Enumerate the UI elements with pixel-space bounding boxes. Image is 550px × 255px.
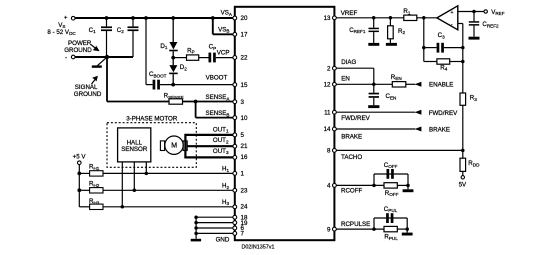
svg-text:13: 13: [324, 15, 331, 22]
svg-text:1: 1: [241, 171, 245, 178]
svg-text:D02IN1357v1: D02IN1357v1: [242, 244, 275, 250]
hall sensor box: [118, 128, 151, 162]
arrow ENABLE: [415, 82, 454, 89]
signal ground symbol: [92, 57, 107, 66]
wire DIAG: [336, 68, 374, 84]
arrow FWD/REV: [415, 110, 459, 117]
diode D1: [160, 42, 177, 58]
node +5V/H2: [77, 188, 81, 192]
svg-text:RCPULSE: RCPULSE: [341, 221, 370, 228]
svg-text:BRAKE: BRAKE: [429, 126, 450, 133]
pin 14 circle: [333, 127, 337, 131]
terminal VREF: [484, 9, 505, 16]
node rail/D1: [171, 16, 175, 20]
wire hall to H3: [121, 162, 123, 207]
svg-text:ENABLE: ENABLE: [429, 82, 453, 89]
svg-text:BRAKE: BRAKE: [341, 133, 362, 140]
pin 12 circle: [333, 82, 337, 86]
svg-text:2: 2: [327, 65, 331, 72]
wire TACHO: [336, 149, 463, 151]
label POWER GROUND: [64, 40, 99, 54]
svg-text:M: M: [171, 143, 177, 150]
wire VSB riser: [213, 18, 233, 34]
wire BRAKE: [336, 128, 415, 130]
wire hall to H1: [145, 162, 147, 174]
motor M circle: [165, 136, 183, 154]
node rail/C1: [105, 16, 109, 20]
node hall/H3: [121, 205, 125, 209]
svg-text:15: 15: [241, 82, 248, 89]
pin 13 circle: [333, 16, 337, 20]
wire hall to H2: [133, 162, 135, 190]
node GND 19: [194, 221, 198, 225]
node R2: [389, 16, 393, 20]
motor M left bracket: [160, 141, 164, 151]
node sense split: [194, 100, 198, 104]
capacitor C3: [424, 32, 463, 52]
op-amp U2: [437, 6, 458, 30]
pin 18 circle: [233, 215, 237, 219]
svg-text:EN: EN: [341, 76, 350, 83]
svg-text:VBOOT: VBOOT: [206, 75, 228, 82]
node C3 left: [422, 46, 426, 50]
node hall/H2: [133, 189, 137, 193]
wire power ground row: [75, 56, 133, 58]
node EN/DIAG: [372, 83, 376, 87]
svg-text:11: 11: [324, 109, 331, 116]
node rail/C2: [131, 16, 135, 20]
resistor RDD: [460, 150, 480, 175]
node RCPULSE right: [405, 227, 409, 231]
wire OUT1: [185, 134, 233, 136]
resistor RH3: [79, 198, 233, 210]
wire GND vertical: [195, 217, 197, 239]
svg-text:VREF: VREF: [341, 10, 358, 17]
node feedback: [422, 16, 426, 20]
pin 21 circle: [233, 144, 237, 148]
node TACHO/R3: [461, 149, 465, 153]
wire GND pin 7: [196, 232, 233, 234]
capacitor CREF1: [349, 18, 379, 43]
node GND 18: [194, 215, 198, 219]
node rail/CBOOT: [144, 16, 148, 20]
ground bar CEN: [368, 105, 379, 108]
svg-text:POWER: POWER: [68, 40, 92, 47]
node C3 right: [461, 46, 465, 50]
svg-text:21: 21: [241, 143, 248, 150]
svg-text:12: 12: [324, 82, 331, 89]
wire motor bar: [184, 134, 186, 159]
terminal 5V: [459, 176, 467, 189]
pin 19 circle: [233, 221, 237, 225]
node CREF1: [372, 16, 376, 20]
node RCOFF right: [406, 184, 410, 188]
node power ground star: [105, 55, 109, 59]
node +5V/H1: [77, 172, 81, 176]
IC U1 body: [235, 7, 335, 240]
node RCPULSE left: [372, 227, 376, 231]
wire feedback left vertical: [423, 18, 425, 62]
capacitor COFF: [374, 162, 408, 186]
resistor R1: [403, 8, 437, 20]
pin 8 circle: [333, 149, 337, 153]
wire CBOOT riser: [145, 18, 147, 85]
resistor R3: [460, 93, 477, 150]
wire GND pin 6: [196, 227, 233, 229]
node hall/H1: [145, 172, 149, 176]
capacitor CEN: [369, 84, 397, 105]
wire GND pin 18: [196, 216, 233, 218]
resistor ROFF: [384, 183, 408, 198]
wire SENSEB: [196, 102, 233, 118]
svg-text:23: 23: [241, 188, 248, 195]
wire ground to sense: [107, 57, 169, 102]
node D1/D2: [171, 56, 175, 60]
node CREF2: [472, 10, 476, 14]
pin 1 circle: [233, 172, 237, 176]
pin 16 circle: [233, 156, 237, 160]
svg-text:SENSEB: SENSEB: [205, 110, 229, 117]
node RCOFF left: [372, 184, 376, 188]
wire GND pin 19: [196, 222, 233, 224]
pin 6 circle: [233, 226, 237, 230]
ground bar CREF1: [368, 43, 379, 46]
terminal - power ground: [65, 54, 75, 61]
capacitor C2: [117, 18, 139, 57]
pin 15 circle: [233, 83, 237, 87]
ground bar R2: [386, 43, 397, 46]
svg-text:GROUND: GROUND: [64, 47, 92, 54]
svg-text:FWD/REV: FWD/REV: [429, 110, 458, 117]
svg-text:-: -: [451, 22, 453, 28]
svg-text:-: -: [65, 54, 67, 61]
pin 9 circle: [333, 227, 337, 231]
svg-text:FWD/REV: FWD/REV: [341, 115, 370, 122]
capacitor CP: [199, 44, 233, 63]
svg-text:22: 22: [241, 55, 248, 62]
ground bar RCOFF: [403, 185, 414, 192]
pin 17 circle: [233, 32, 237, 36]
svg-text:VCP: VCP: [217, 50, 230, 57]
svg-text:10: 10: [241, 115, 248, 122]
resistor R2: [388, 18, 406, 43]
resistor REN: [391, 74, 415, 87]
svg-text:5: 5: [241, 132, 245, 139]
svg-text:3-PHASE MOTOR: 3-PHASE MOTOR: [126, 115, 178, 122]
pin 2 circle: [333, 66, 337, 70]
resistor RP: [173, 47, 199, 60]
node GND 6: [194, 226, 198, 230]
resistor RH2: [79, 181, 233, 193]
motor M right bracket: [183, 141, 187, 151]
svg-text:3: 3: [241, 99, 245, 106]
svg-text:GND: GND: [216, 236, 230, 243]
pin 4 circle: [333, 184, 337, 188]
label SIGNAL GROUND: [74, 76, 102, 98]
svg-text:9: 9: [327, 226, 331, 233]
pin 3 circle: [233, 100, 237, 104]
svg-text:+5 V: +5 V: [73, 154, 87, 161]
resistor R4: [424, 59, 463, 72]
node R4 right: [461, 60, 465, 64]
ground bar GND: [191, 239, 201, 242]
svg-text:8: 8: [327, 148, 331, 155]
ground bar CREF2: [469, 37, 480, 40]
wire OUT3: [185, 156, 233, 158]
svg-text:5V: 5V: [459, 182, 467, 189]
capacitor CBOOT: [146, 71, 233, 90]
wire VREF row: [336, 17, 404, 19]
wire op-amp minus feedback: [458, 24, 463, 94]
ground bar RCPULSE: [402, 229, 413, 235]
wire VS top rail: [75, 17, 233, 19]
svg-text:4: 4: [327, 183, 331, 190]
svg-text:DIAG: DIAG: [341, 59, 356, 66]
dashed motor box: [107, 123, 196, 168]
wire OUT2: [187, 145, 233, 147]
wire FWD/REV: [336, 111, 415, 113]
pin 23 circle: [233, 188, 237, 192]
svg-text:TACHO: TACHO: [341, 154, 362, 161]
svg-text:16: 16: [241, 154, 248, 161]
pin 5 circle: [233, 133, 237, 137]
pin 22 circle: [233, 56, 237, 60]
pin 20 circle: [233, 16, 237, 20]
svg-text:GROUND: GROUND: [74, 91, 102, 98]
svg-text:+: +: [64, 15, 68, 22]
pin 7 circle: [233, 232, 237, 236]
capacitor CPUL: [374, 206, 407, 229]
pin 11 circle: [333, 110, 337, 114]
node D2/VBOOT: [171, 83, 175, 87]
wire D1 riser: [172, 18, 174, 42]
svg-text:RCOFF: RCOFF: [341, 187, 363, 194]
node GND 7: [194, 232, 198, 236]
capacitor C1: [89, 18, 112, 57]
arrow BRAKE: [415, 126, 450, 133]
pin 24 circle: [233, 205, 237, 209]
terminal + VS: [47, 15, 76, 37]
svg-text:SENSOR: SENSOR: [121, 146, 148, 153]
wire EN row: [336, 83, 392, 85]
svg-text:17: 17: [241, 32, 248, 39]
terminal +5V: [73, 154, 87, 165]
svg-text:7: 7: [241, 231, 245, 238]
node rail/VSB: [211, 16, 215, 20]
diode D2: [169, 58, 187, 85]
svg-text:14: 14: [324, 126, 331, 133]
resistor RSENSE: [164, 93, 233, 105]
pin 10 circle: [233, 116, 237, 120]
wire RCOFF row: [336, 184, 384, 186]
capacitor CREF2: [469, 12, 499, 37]
svg-text:24: 24: [241, 204, 248, 211]
svg-text:20: 20: [241, 15, 248, 22]
wire RCPULSE row: [336, 228, 384, 230]
wire +5V vertical: [78, 165, 80, 207]
resistor RPUL: [384, 226, 407, 241]
wire op-amp plus to VREF terminal: [458, 11, 484, 13]
resistor RH1: [79, 164, 233, 176]
